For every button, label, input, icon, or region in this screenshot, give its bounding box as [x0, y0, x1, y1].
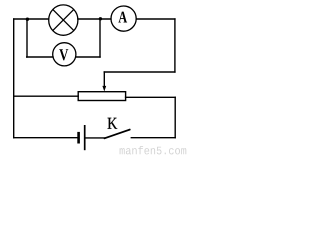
wire rheostat to right [126, 96, 176, 98]
node junction dot (V branch right) [99, 17, 102, 20]
rheostat R1 [78, 92, 125, 101]
wire V-branch left horizontal [27, 56, 53, 58]
watermark manfen5.com [120, 146, 187, 154]
wire middle-left to rheostat [14, 95, 79, 97]
wire right rail upper [174, 19, 176, 72]
wire to rheostat slider [104, 71, 175, 73]
wire V-branch right vertical [99, 19, 101, 57]
node junction dot (V branch left) [26, 18, 29, 21]
switch K lever [105, 130, 130, 139]
battery negative plate [77, 132, 80, 144]
wire battery to switch [86, 137, 105, 139]
wire top-left to lamp [14, 18, 49, 20]
wire lamp to ammeter [78, 18, 111, 20]
label K [108, 118, 118, 129]
wire left rail [13, 19, 15, 138]
rheostat slider arrowhead [102, 86, 106, 92]
wire V-branch right horizontal [76, 56, 100, 58]
battery positive plate [84, 125, 86, 150]
wire V-branch left vertical [26, 19, 28, 57]
wire slider vertical [103, 72, 105, 87]
wire right rail lower [174, 97, 176, 137]
wire ammeter to top-right corner [136, 18, 175, 20]
wire bottom-left to battery [14, 137, 78, 139]
lamp X1 [49, 5, 78, 35]
voltmeter V [53, 43, 76, 66]
ammeter A [111, 6, 136, 31]
wire switch to bottom-right corner [131, 137, 175, 139]
